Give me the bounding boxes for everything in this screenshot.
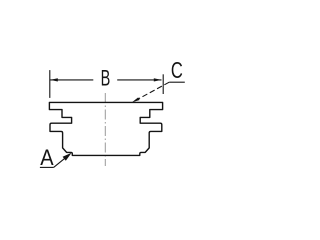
svg-text:B: B <box>101 65 111 90</box>
svg-text:C: C <box>171 58 183 83</box>
svg-text:A: A <box>40 146 53 170</box>
